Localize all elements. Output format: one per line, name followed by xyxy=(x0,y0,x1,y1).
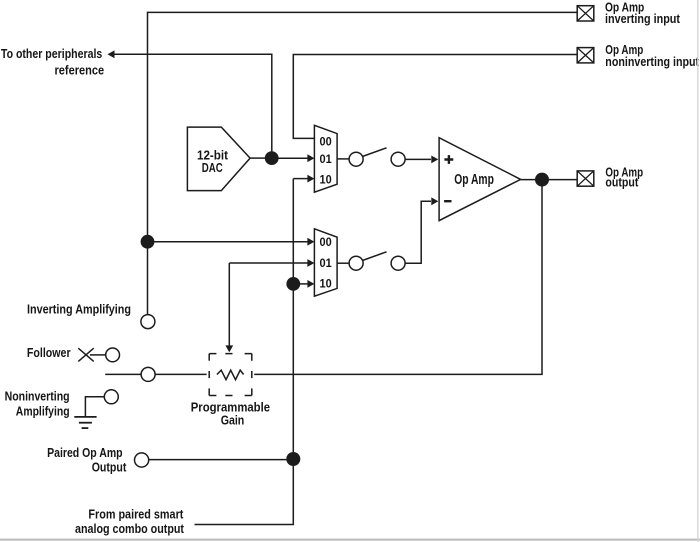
label: From paired smart analog combo output xyxy=(75,508,185,536)
svg-text:From paired smart: From paired smart xyxy=(88,508,184,522)
svg-text:DAC: DAC xyxy=(202,161,223,175)
DAC: 12-bit DAC pentagon xyxy=(187,127,250,191)
wire: mux2 output xyxy=(337,262,349,264)
border: right gray rule xyxy=(697,0,699,542)
wire: mux2 10 input xyxy=(293,280,314,288)
wire: gain select arrow down into programmable gain xyxy=(225,263,233,352)
svg-text:output: output xyxy=(605,176,639,190)
svg-text:Amplifying: Amplifying xyxy=(16,404,70,418)
border: bottom gray rule xyxy=(0,539,700,541)
wire: follower X to circle xyxy=(90,354,106,356)
node: junction feeding lower mux 00 input xyxy=(141,235,155,249)
label: mux2 inputs 00 01 10 xyxy=(320,237,333,291)
label: mux1 inputs 00 01 10 xyxy=(320,137,333,187)
pad: op amp inverting input xyxy=(577,6,594,21)
svg-text:reference: reference xyxy=(55,63,105,77)
wire: DAC output xyxy=(250,157,266,159)
wire: top line from inverting-amplifying branch to op amp inverting input pad xyxy=(148,12,578,314)
mux M2 xyxy=(314,229,337,296)
label: Op Amp output xyxy=(605,165,643,189)
switch S2 xyxy=(349,252,405,270)
switch S1 xyxy=(349,148,405,166)
resistor: programmable gain dashed box xyxy=(209,354,252,396)
wire: switch S2 to op amp - input xyxy=(405,197,438,263)
svg-text:10: 10 xyxy=(320,174,332,186)
wire: paired analog combo vertical line to bottom label xyxy=(195,179,294,525)
label: Paired Op Amp Output xyxy=(47,446,127,475)
label: Programmable Gain xyxy=(191,401,270,428)
label: Op Amp noninverting input xyxy=(605,43,700,69)
terminal: follower X xyxy=(78,348,93,361)
wire: op amp output to pad xyxy=(521,179,578,181)
node: mux2 10 junction xyxy=(286,277,300,291)
svg-text:01: 01 xyxy=(320,154,333,166)
pad: op amp output xyxy=(577,171,594,186)
terminal: follower open circle xyxy=(106,348,120,362)
svg-text:Inverting Amplifying: Inverting Amplifying xyxy=(27,303,131,317)
wire: mux2 00 input xyxy=(148,238,315,246)
ground xyxy=(74,417,96,428)
label: Noninverting Amplifying xyxy=(5,389,70,418)
wire: mux1 output xyxy=(337,158,349,160)
svg-text:00: 00 xyxy=(320,137,332,149)
mux M1 xyxy=(314,125,337,192)
label: Op Amp inverting input xyxy=(605,0,681,26)
svg-text:To other peripherals: To other peripherals xyxy=(1,47,102,61)
node: op amp output junction xyxy=(535,173,549,187)
terminal: paired op amp output open circle xyxy=(135,453,149,467)
node: DAC output junction xyxy=(265,151,279,165)
wire: noninverting circle to ground xyxy=(85,397,104,417)
label: To other peripherals reference xyxy=(1,47,104,77)
svg-text:Output: Output xyxy=(92,461,127,475)
label: 12-bit DAC xyxy=(197,149,229,175)
wire: reference line with left arrow xyxy=(108,50,272,158)
wire: mux1 01 input xyxy=(278,154,314,162)
svg-text:Paired Op Amp: Paired Op Amp xyxy=(47,446,123,460)
svg-text:00: 00 xyxy=(320,237,332,249)
svg-text:noninverting input: noninverting input xyxy=(605,55,700,69)
wire: mux1 10 input xyxy=(293,175,314,183)
wire: feedback from output down and left to programmable gain xyxy=(254,180,542,375)
svg-text:analog combo output: analog combo output xyxy=(75,522,185,536)
node: paired output junction xyxy=(286,452,300,466)
wire: amplifier common input line (left of programmable gain) xyxy=(105,373,206,375)
wire: paired op amp output line xyxy=(149,459,294,461)
pad: op amp noninverting input xyxy=(577,48,594,63)
terminal: inverting amplifying open circle xyxy=(141,315,155,329)
svg-text:inverting input: inverting input xyxy=(605,12,681,26)
svg-text:10: 10 xyxy=(320,279,332,291)
svg-text:01: 01 xyxy=(320,258,333,270)
wire: switch S1 to op amp + input xyxy=(405,156,438,164)
svg-text:Op Amp: Op Amp xyxy=(454,172,494,188)
op-amp U1 xyxy=(439,138,520,221)
svg-text:Gain: Gain xyxy=(221,413,245,427)
wire: noninverting input line down to mux1 00 input xyxy=(293,55,577,139)
terminal: noninverting amplifying open circle xyxy=(104,390,118,404)
svg-text:Follower: Follower xyxy=(27,346,71,360)
svg-text:Noninverting: Noninverting xyxy=(5,389,70,403)
switch: input select circle on common line xyxy=(141,367,155,381)
wire: mux2 01 input xyxy=(229,259,314,267)
